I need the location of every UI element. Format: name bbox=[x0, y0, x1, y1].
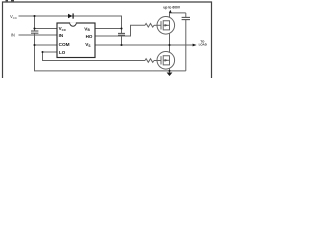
svg-text:up to 600V: up to 600V bbox=[163, 6, 180, 10]
svg-text:VS: VS bbox=[85, 42, 90, 48]
svg-text:IN: IN bbox=[59, 33, 64, 38]
svg-text:VCC: VCC bbox=[10, 14, 17, 20]
svg-text:LOAD: LOAD bbox=[199, 43, 207, 47]
svg-text:HO: HO bbox=[86, 34, 93, 39]
svg-text:LO: LO bbox=[59, 50, 66, 55]
svg-text:VB: VB bbox=[84, 26, 90, 32]
svg-text:COM: COM bbox=[59, 42, 70, 47]
svg-text:VCC: VCC bbox=[59, 26, 67, 32]
svg-text:IN: IN bbox=[11, 33, 15, 38]
